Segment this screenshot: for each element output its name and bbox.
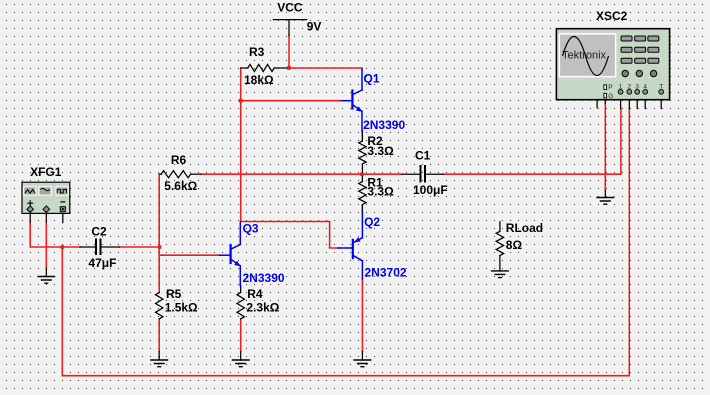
svg-text:47μF: 47μF bbox=[88, 256, 116, 270]
svg-text:Q3: Q3 bbox=[243, 222, 259, 236]
svg-text:R4: R4 bbox=[247, 287, 263, 301]
svg-text:XSC2: XSC2 bbox=[596, 9, 628, 23]
svg-text:RLoad: RLoad bbox=[506, 221, 543, 235]
svg-text:Q1: Q1 bbox=[364, 72, 380, 86]
svg-text:9V: 9V bbox=[307, 20, 322, 34]
svg-text:3: 3 bbox=[635, 84, 639, 91]
svg-text:R5: R5 bbox=[166, 287, 182, 301]
svg-text:2N3390: 2N3390 bbox=[363, 118, 405, 132]
svg-text:T: T bbox=[659, 84, 663, 91]
svg-text:Tektronix: Tektronix bbox=[562, 50, 607, 62]
svg-text:G: G bbox=[608, 93, 613, 100]
svg-text:C2: C2 bbox=[91, 224, 107, 238]
svg-text:1: 1 bbox=[619, 84, 623, 91]
svg-text:XFG1: XFG1 bbox=[30, 165, 62, 179]
svg-text:Q2: Q2 bbox=[364, 215, 380, 229]
svg-text:5.6kΩ: 5.6kΩ bbox=[164, 179, 197, 193]
svg-text:2N3702: 2N3702 bbox=[365, 265, 407, 279]
svg-text:VCC: VCC bbox=[277, 1, 303, 15]
svg-text:8Ω: 8Ω bbox=[506, 238, 523, 252]
svg-text:2.3kΩ: 2.3kΩ bbox=[246, 300, 279, 314]
svg-text:2: 2 bbox=[627, 84, 631, 91]
svg-text:4: 4 bbox=[643, 84, 647, 91]
svg-text:C1: C1 bbox=[415, 149, 431, 163]
svg-text:R3: R3 bbox=[249, 45, 265, 59]
svg-text:P: P bbox=[608, 84, 612, 91]
svg-text:100μF: 100μF bbox=[413, 183, 448, 197]
svg-text:18kΩ: 18kΩ bbox=[244, 73, 274, 87]
svg-text:R6: R6 bbox=[171, 153, 187, 167]
svg-text:1.5kΩ: 1.5kΩ bbox=[165, 300, 198, 314]
svg-text:3.3Ω: 3.3Ω bbox=[367, 144, 394, 158]
svg-text:3.3Ω: 3.3Ω bbox=[367, 185, 394, 199]
svg-text:2N3390: 2N3390 bbox=[243, 271, 285, 285]
